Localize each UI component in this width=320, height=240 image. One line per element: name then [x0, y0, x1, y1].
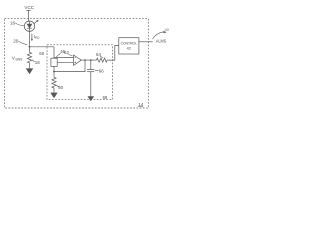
- wire control to ALMS: [139, 41, 153, 43]
- ground for R18: [26, 68, 34, 74]
- label 50 leader: [56, 85, 59, 87]
- label 62 leader: [68, 54, 72, 56]
- svg-text:CONTROL: CONTROL: [121, 41, 137, 45]
- wire VCC to photodiode: [28, 10, 30, 21]
- minus input wire: [54, 57, 74, 59]
- label 18 leader: [32, 60, 35, 62]
- svg-text:42: 42: [127, 46, 131, 50]
- photodiode cathode bar: [27, 27, 32, 29]
- control block 42: [119, 38, 139, 54]
- inner dashed box 60: [47, 45, 113, 100]
- svg-text:14: 14: [138, 102, 144, 107]
- resistor R 18: [27, 47, 31, 69]
- svg-text:PD: PD: [35, 36, 40, 40]
- svg-text:62: 62: [64, 50, 69, 55]
- cap node dot: [90, 59, 92, 61]
- plus sign: [74, 62, 76, 64]
- feedback wire: [54, 60, 85, 72]
- wire junction to inner box: [30, 46, 55, 48]
- photodiode triangle: [27, 24, 32, 28]
- node junction dot: [29, 46, 31, 48]
- svg-text:64: 64: [96, 52, 101, 57]
- plus input wire: [57, 61, 73, 63]
- op-amp output wire: [81, 59, 96, 61]
- svg-text:SNS: SNS: [15, 57, 23, 61]
- label 20 leader: [19, 41, 27, 44]
- IPD current arrow: [31, 34, 33, 40]
- svg-text:50: 50: [58, 85, 63, 90]
- label 16 leader: [15, 23, 24, 26]
- label 66 leader: [95, 69, 99, 71]
- ground for R50: [50, 93, 57, 99]
- wire below element: [53, 66, 55, 71]
- ground for C66: [88, 96, 95, 101]
- svg-text:60: 60: [39, 51, 44, 56]
- VCC power bar: [26, 9, 30, 11]
- resistor R 64: [97, 58, 108, 62]
- label 14 underline: [138, 106, 143, 108]
- wire photodiode to junction: [29, 31, 31, 46]
- svg-text:16: 16: [10, 20, 15, 25]
- photodiode internal wire: [29, 21, 31, 31]
- resistor R 50: [52, 72, 56, 93]
- wire corner into comparator input: [53, 47, 55, 58]
- wire resistor to riser: [107, 45, 119, 60]
- svg-text:20: 20: [13, 38, 18, 43]
- photodiode D 16 circle: [24, 21, 34, 31]
- label 64 leader: [100, 56, 103, 58]
- op-amp U 62: [74, 55, 82, 65]
- svg-text:68: 68: [103, 95, 108, 100]
- light arrow: [34, 21, 38, 24]
- svg-text:18: 18: [35, 60, 40, 65]
- outer dashed module box 14: [5, 19, 149, 108]
- label 46 leader: [56, 53, 60, 57]
- minus sign: [74, 57, 76, 59]
- svg-text:40: 40: [165, 28, 169, 32]
- ALMS arrow 40: [153, 32, 164, 39]
- feedback tap dot: [84, 59, 86, 61]
- svg-text:VCC: VCC: [24, 5, 34, 10]
- reference element box 46: [51, 58, 57, 66]
- svg-text:66: 66: [99, 68, 104, 73]
- svg-text:ALMS: ALMS: [156, 39, 167, 44]
- capacitor C 66: [90, 60, 92, 70]
- feedback node dot: [53, 71, 55, 73]
